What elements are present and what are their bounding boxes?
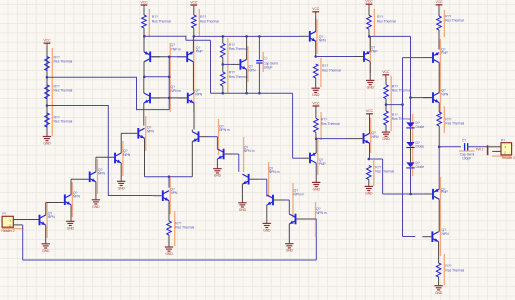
- svg-text:GND: GND: [312, 93, 320, 97]
- orange line Q19: [122, 141, 124, 176]
- pin R10 top: [368, 7, 370, 15]
- svg-text:Res Thermal: Res Thermal: [445, 268, 464, 272]
- node Q1 collector: [143, 76, 146, 79]
- diode D1: [406, 122, 414, 127]
- svg-text:PNP: PNP: [441, 190, 449, 194]
- svg-text:GND: GND: [435, 291, 443, 295]
- node upper NPN base: [409, 96, 412, 99]
- resistor R8: [221, 72, 226, 86]
- transistor Q15 NPN (output lower): [431, 231, 433, 242]
- pin header P1 pin2: [13, 224, 22, 226]
- orange line Q5: [145, 116, 147, 151]
- pin Q4 collector up: [193, 91, 195, 94]
- transistor Q13 NPN (output upper): [432, 92, 434, 103]
- orange line Q17: [71, 182, 73, 217]
- wire Q13 base: [411, 97, 424, 99]
- svg-text:Diode: Diode: [416, 125, 425, 129]
- pin Q2 collector down: [192, 62, 194, 91]
- pin Q8 emitter down: [315, 41, 317, 56]
- wire Q24 base link: [306, 218, 317, 220]
- svg-text:NPN: NPN: [442, 232, 450, 236]
- pin Q3 emitter down: [143, 103, 145, 126]
- svg-text:GND: GND: [382, 137, 390, 141]
- svg-text:Res Thermal: Res Thermal: [54, 89, 73, 93]
- pin chain222 b: [222, 57, 224, 72]
- svg-text:GND: GND: [239, 208, 247, 212]
- node divider tap2: [46, 104, 49, 107]
- resistor R9 (Q8 emitter): [313, 64, 318, 78]
- ground Q18: [92, 199, 100, 201]
- resistor R4 (left mirror load): [142, 15, 147, 28]
- svg-text:VCC: VCC: [190, 0, 198, 4]
- svg-text:GND: GND: [313, 187, 321, 191]
- wire VAS emitter to Q10 base: [316, 138, 346, 140]
- pin Q10 collector: [369, 116, 371, 133]
- wire left divider column: [46, 46, 48, 136]
- orange line C2: [459, 150, 475, 152]
- wire tap2 to T6 base: [47, 105, 108, 107]
- node Q7 emitter: [245, 92, 248, 95]
- node cap top: [258, 35, 261, 38]
- ground left divider: [43, 136, 51, 138]
- pin Q1 collector down: [143, 62, 145, 77]
- wire Q16-Q17 base: [46, 202, 64, 204]
- pin Q23 emitter down: [266, 205, 268, 223]
- pin bias mid: [385, 99, 387, 111]
- wire Q1 collector to base tie: [144, 76, 169, 78]
- svg-text:100pF: 100pF: [263, 66, 272, 70]
- orange line chain222: [227, 38, 229, 93]
- wire diff bases: [151, 97, 187, 99]
- capacitor C1: [256, 60, 262, 62]
- resistor R7: [221, 43, 226, 57]
- svg-text:GND: GND: [263, 228, 271, 232]
- svg-text:Res Thermal: Res Thermal: [175, 226, 194, 230]
- wire cap top lead: [258, 36, 260, 59]
- transistor Q10 NPN: [363, 133, 365, 144]
- orange line Q10: [370, 118, 372, 153]
- orange line right PNP and diff right: [193, 39, 195, 112]
- orange line Q16: [46, 203, 48, 238]
- transistor Q7 NPN (cascode): [239, 59, 241, 70]
- svg-text:NPN m: NPN m: [219, 128, 230, 132]
- pin R9 gnd: [315, 78, 317, 88]
- pin VCC to R4: [143, 8, 145, 15]
- probe bar: [487, 145, 489, 155]
- wire lower PNP base: [411, 193, 424, 195]
- svg-text:VCC: VCC: [435, 0, 443, 4]
- svg-text:NPN: NPN: [441, 92, 449, 96]
- transistor Q3 NPN m (diff left): [149, 93, 151, 104]
- pin Q22 emitter down: [241, 184, 243, 202]
- wire Q18-Q19 base: [96, 156, 114, 158]
- pin Q17 collector: [70, 179, 72, 194]
- ground bias divider: [382, 131, 390, 133]
- orange line Q7: [247, 46, 249, 82]
- transistor Q16 NPN (input 1): [39, 215, 41, 226]
- wire rail A2: [194, 35, 300, 37]
- pin Q13 emitter down: [438, 103, 440, 112]
- svg-text:Res Thermal: Res Thermal: [54, 120, 73, 124]
- pin R15 top: [438, 7, 440, 16]
- pin tail to T6 collector: [168, 177, 170, 188]
- node PNP base tie: [168, 56, 171, 59]
- svg-text:NPN m: NPN m: [316, 211, 327, 215]
- wire diode rail top: [369, 35, 410, 37]
- resistor R11: [367, 166, 372, 180]
- transistor Q22 NPN m: [248, 174, 250, 185]
- transistor Q5 NPN (cascode lower): [137, 128, 139, 139]
- orange line R10: [373, 9, 375, 36]
- svg-text:Res Thermal: Res Thermal: [377, 19, 396, 23]
- svg-text:Res Thermal: Res Thermal: [392, 89, 411, 93]
- svg-text:GND: GND: [165, 252, 173, 256]
- svg-text:NPN m: NPN m: [294, 192, 305, 196]
- ground R11: [365, 185, 373, 187]
- node diode rail top: [368, 35, 371, 38]
- svg-text:P?: P?: [2, 212, 6, 216]
- pin Q11 collector down: [315, 163, 317, 182]
- orange line Q9: [369, 37, 371, 73]
- node chain222 top: [222, 35, 225, 38]
- pin Q9 emitter up: [369, 36, 371, 51]
- wire output node down: [438, 147, 440, 189]
- wire Q23 base link: [283, 199, 289, 201]
- svg-text:Res Thermal: Res Thermal: [392, 117, 411, 121]
- wire base tie down to diff bases: [168, 57, 170, 110]
- orange line diodes: [412, 114, 414, 176]
- svg-text:GND: GND: [92, 205, 100, 209]
- svg-text:Res Thermal: Res Thermal: [229, 75, 248, 79]
- orange line R11: [373, 160, 375, 186]
- node bias tap: [385, 103, 388, 106]
- diode D3: [406, 162, 414, 167]
- resistor R14: [384, 111, 389, 125]
- pin Q15 emitter down: [438, 242, 440, 263]
- svg-text:NPN: NPN: [98, 172, 106, 176]
- ground Q22: [238, 202, 246, 204]
- wire Q10 emitter link: [369, 158, 383, 160]
- svg-text:Res Thermal: Res Thermal: [322, 68, 341, 72]
- pin R5 to node: [193, 28, 195, 36]
- resistor R5 (right mirror load): [192, 15, 197, 28]
- svg-text:P?: P?: [501, 138, 505, 142]
- pin Q1 emitter up: [143, 36, 145, 52]
- orange line bias divider: [390, 76, 392, 131]
- transistor Q14 PNP (output lower): [432, 189, 434, 200]
- pin Q2 emitter up: [192, 36, 194, 51]
- transistor Q24 NPN m: [295, 214, 297, 225]
- resistor R15: [437, 16, 442, 30]
- svg-text:Diode: Diode: [416, 145, 425, 149]
- svg-text:Header 2: Header 2: [502, 156, 515, 160]
- transistor Q11 PNP: [309, 153, 311, 164]
- svg-text:GND: GND: [214, 174, 222, 178]
- node Q7 collector: [245, 35, 248, 38]
- pin bias divider top: [385, 77, 387, 84]
- wire D1-D2: [410, 129, 412, 143]
- orange line header P1: [2, 228, 24, 230]
- orange thermal line R4: [148, 9, 150, 37]
- ground Q21: [213, 168, 221, 170]
- node chain222 mid: [222, 63, 225, 66]
- svg-text:VCC: VCC: [382, 70, 390, 74]
- ground Q19: [117, 180, 125, 182]
- node mirror-left emitter: [143, 35, 146, 38]
- node divider tap1: [46, 76, 49, 79]
- svg-text:Res Thermal: Res Thermal: [375, 170, 394, 174]
- resistor R6 tail: [167, 221, 172, 235]
- pin Q11 emitter up: [315, 139, 317, 153]
- ground Q23: [263, 222, 271, 224]
- transistor Q20 NPN m: [198, 131, 200, 142]
- ground Q17: [66, 220, 74, 222]
- pin Q5 emitter down to tail: [144, 138, 146, 176]
- svg-text:VCC: VCC: [366, 109, 374, 113]
- node diff base tie: [168, 97, 171, 100]
- diode D2: [406, 142, 414, 147]
- connector P2 header: [501, 143, 512, 155]
- svg-text:PNP: PNP: [319, 162, 327, 166]
- wire chain mid to Q7 base: [223, 63, 231, 65]
- node VAS emitter: [315, 138, 318, 141]
- capacitor C2: [464, 143, 466, 150]
- wire tail: [145, 176, 193, 178]
- svg-text:NPN: NPN: [319, 39, 327, 43]
- wire Q21 base link: [234, 153, 239, 155]
- orange line R12: [320, 112, 322, 140]
- orange line C1: [262, 52, 264, 72]
- pin R15 bottom: [438, 30, 440, 50]
- resistor R1 left divider: [45, 57, 50, 71]
- wire cap bottom lead: [258, 64, 260, 94]
- wire Q17-Q18 base: [71, 178, 89, 180]
- pin header P2 pin2: [492, 150, 501, 152]
- ground tail: [165, 246, 173, 248]
- orange line Q18: [97, 159, 99, 194]
- svg-text:VCC: VCC: [312, 101, 320, 105]
- pin Q14-Q15 link: [438, 199, 440, 232]
- svg-text:100pF: 100pF: [462, 157, 471, 161]
- wire output to cap: [439, 146, 461, 148]
- wire bias tap to rail: [386, 104, 403, 106]
- node Q10 emitter: [368, 158, 371, 161]
- svg-text:Res Thermal: Res Thermal: [445, 122, 464, 126]
- resistor R17: [436, 263, 441, 277]
- svg-text:C?: C?: [462, 138, 466, 142]
- pin Q24 emitter down: [288, 224, 290, 244]
- svg-text:NPN: NPN: [371, 135, 379, 139]
- pin Q10 emitter: [369, 143, 371, 159]
- node tail center: [168, 175, 171, 178]
- node lower PNP base: [409, 193, 412, 196]
- orange line mirrored pair: [169, 43, 171, 112]
- pin Q16 collector: [45, 203, 47, 216]
- svg-text:GND: GND: [367, 85, 375, 89]
- node right PNP emitter: [193, 35, 196, 38]
- orange thermal line R5: [198, 9, 200, 36]
- pin Q7 emitter down: [246, 69, 248, 93]
- ground Q11: [312, 181, 320, 183]
- transistor Q23 NPN m: [272, 195, 274, 206]
- orange line Q21: [243, 137, 245, 172]
- ground Q16: [42, 243, 50, 245]
- pin Q20 emitter down: [191, 142, 193, 177]
- pin R4 to rail: [143, 28, 145, 36]
- svg-text:7V0 1: 7V0 1: [476, 147, 484, 151]
- transistor Q2 PNP (mirror out): [186, 52, 188, 63]
- transistor Q17 NPN (input 2): [64, 194, 66, 205]
- orange line header P2: [492, 155, 512, 157]
- ground Q9: [366, 79, 374, 81]
- orange line R17: [443, 254, 445, 285]
- svg-text:PNP: PNP: [371, 49, 379, 53]
- svg-text:Diode: Diode: [416, 165, 425, 169]
- resistor R3 left divider: [45, 113, 50, 127]
- wire rail A: [144, 35, 186, 37]
- pin R12 bottom: [315, 132, 317, 139]
- connector P1 header: [2, 216, 13, 227]
- pin Q8 collector to VCC: [315, 15, 317, 32]
- pin R6 to gnd: [168, 235, 170, 247]
- orange thermal line (left divider): [51, 48, 53, 136]
- svg-text:NPN m: NPN m: [171, 89, 182, 93]
- pin R11 gnd: [368, 180, 370, 187]
- svg-text:GND: GND: [286, 249, 294, 253]
- node bias rail join: [401, 103, 404, 106]
- node base tie vertical: [168, 76, 171, 79]
- transistor Q12 PNP (output upper): [432, 52, 434, 63]
- ground output: [434, 285, 442, 287]
- orange line Q24: [315, 202, 317, 237]
- wire Q22 base link: [259, 178, 267, 180]
- wire PNP bases tie: [151, 56, 169, 58]
- svg-text:Res Thermal: Res Thermal: [200, 20, 219, 24]
- resistor R2 left divider: [45, 85, 50, 99]
- pin R17 gnd: [438, 277, 440, 286]
- svg-text:GND: GND: [67, 226, 75, 230]
- orange line Q22: [268, 162, 270, 197]
- node chain222 bottom: [222, 92, 225, 95]
- pin VCC to R5: [193, 8, 195, 15]
- resistor R12: [314, 118, 319, 132]
- svg-text:NPN: NPN: [73, 195, 81, 199]
- svg-text:NPN m: NPN m: [269, 170, 280, 174]
- orange line output upper: [439, 39, 441, 116]
- svg-text:VCC: VCC: [140, 0, 148, 4]
- svg-text:GND: GND: [118, 186, 126, 190]
- svg-text:PNP: PNP: [441, 51, 449, 55]
- pin Q18 collector: [95, 157, 97, 172]
- wire feedback bottom: [22, 225, 24, 260]
- resistor R10: [367, 15, 372, 29]
- node output: [438, 146, 441, 149]
- svg-text:GND: GND: [365, 192, 373, 196]
- pin Q7 collector up: [246, 36, 248, 59]
- svg-text:NPN: NPN: [195, 92, 203, 96]
- pin header P1 pin1: [13, 219, 38, 221]
- resistor R16: [437, 112, 442, 126]
- svg-text:GND: GND: [42, 249, 50, 253]
- pin chain222 a: [222, 36, 224, 43]
- wire cap to probe: [468, 146, 487, 148]
- svg-text:VCC: VCC: [43, 39, 51, 43]
- wire D3 down: [410, 168, 412, 194]
- transistor Q19 NPN (input 4): [114, 153, 116, 164]
- svg-text:NPN m: NPN m: [244, 149, 255, 153]
- pin chain222 c: [222, 86, 224, 93]
- pin Q17 emitter: [70, 205, 72, 221]
- pin Q21 emitter down: [216, 159, 218, 169]
- svg-text:Res Thermal: Res Thermal: [54, 60, 73, 64]
- pin Q20 collector up: [191, 130, 193, 132]
- transistor Q9 PNP: [363, 51, 365, 62]
- wire diode string upper: [410, 98, 412, 123]
- svg-text:NPN: NPN: [123, 153, 131, 157]
- svg-text:Res Thermal: Res Thermal: [445, 19, 464, 23]
- transistor Q8 NPN: [309, 31, 311, 42]
- svg-text:Res Thermal: Res Thermal: [321, 122, 340, 126]
- transistor Q1 PNP m (mirror diode): [149, 52, 151, 63]
- wire Q20 base link: [209, 136, 218, 138]
- node cap bottom: [258, 92, 261, 95]
- orange line Q8: [316, 19, 318, 54]
- transistor Q21 NPN m: [223, 149, 225, 160]
- svg-text:VCC: VCC: [365, 0, 373, 4]
- transistor Q18 NPN (input 3): [89, 172, 91, 183]
- wire Q19-Q5 base: [121, 132, 128, 134]
- svg-text:NPN: NPN: [48, 215, 56, 219]
- pin R16 to output node: [438, 126, 440, 147]
- svg-text:NPN: NPN: [170, 191, 178, 195]
- orange line Q11: [317, 140, 319, 175]
- pin Q9 collector down: [369, 62, 371, 81]
- orange line Q6: [169, 178, 171, 214]
- pin Q4 emitter down: [193, 103, 195, 130]
- svg-text:VCC: VCC: [312, 7, 320, 11]
- transistor Q4 NPN (diff right): [187, 93, 189, 104]
- wire collector drop x=210.5: [210, 40, 212, 93]
- wire tap1 to diff base: [47, 76, 137, 78]
- ground Q24: [285, 243, 293, 245]
- svg-text:PNP m: PNP m: [171, 48, 182, 52]
- pin Q3 collector up: [143, 77, 145, 93]
- node Q8 emitter: [314, 55, 317, 58]
- pin R12 top: [315, 109, 317, 119]
- ground R9: [312, 87, 320, 89]
- svg-text:Res Thermal: Res Thermal: [152, 20, 171, 24]
- pin Q19 emitter: [120, 163, 122, 181]
- svg-text:Res Thermal: Res Thermal: [229, 47, 248, 51]
- transistor Q6 NPN (tail sink): [162, 190, 164, 201]
- resistor R13: [384, 85, 389, 99]
- orange line output lower: [439, 177, 441, 256]
- svg-text:NPN: NPN: [248, 68, 256, 72]
- pin bias gnd: [385, 125, 387, 132]
- svg-text:Header 2: Header 2: [1, 229, 14, 233]
- pin R10 bottom: [368, 29, 370, 36]
- pin Q18 emitter: [95, 182, 97, 200]
- orange line R9: [320, 58, 322, 87]
- wire VAS feed: [211, 92, 293, 94]
- wire bias rail: [402, 58, 404, 237]
- orange line Q20: [218, 119, 220, 155]
- orange line R15: [443, 10, 445, 37]
- wire Q8 emitter to Q9 base: [316, 56, 354, 58]
- pin Q19 collector: [120, 133, 122, 153]
- pin Q6 emitter down: [168, 201, 170, 221]
- svg-text:PNP: PNP: [196, 50, 204, 54]
